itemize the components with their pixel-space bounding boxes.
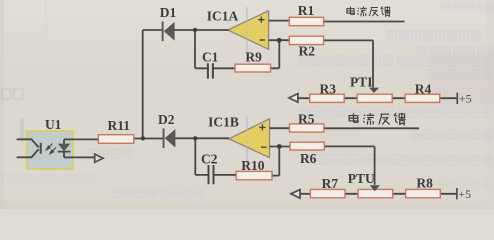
- svg-text:PTU: PTU: [348, 171, 375, 186]
- svg-text:PTI: PTI: [350, 75, 373, 90]
- svg-text:R3: R3: [320, 81, 337, 96]
- svg-text:R11: R11: [108, 118, 131, 133]
- svg-text:R8: R8: [416, 176, 433, 191]
- svg-text:R9: R9: [245, 50, 262, 65]
- svg-text:IC1B: IC1B: [208, 114, 239, 129]
- svg-text:R5: R5: [298, 112, 315, 127]
- svg-text:+5: +5: [459, 92, 472, 106]
- svg-text:C2: C2: [201, 151, 218, 166]
- svg-text:R4: R4: [415, 81, 432, 96]
- svg-text:R2: R2: [299, 43, 316, 58]
- svg-text:D1: D1: [160, 5, 177, 20]
- svg-text:+5: +5: [458, 187, 471, 201]
- svg-text:IC1A: IC1A: [207, 9, 239, 24]
- svg-text:U1: U1: [45, 117, 62, 132]
- svg-text:R10: R10: [241, 158, 264, 173]
- svg-text:C1: C1: [202, 50, 219, 65]
- svg-text:D2: D2: [158, 112, 175, 127]
- svg-text:R6: R6: [300, 151, 317, 166]
- svg-text:R1: R1: [298, 3, 315, 18]
- svg-text:R7: R7: [322, 176, 339, 191]
